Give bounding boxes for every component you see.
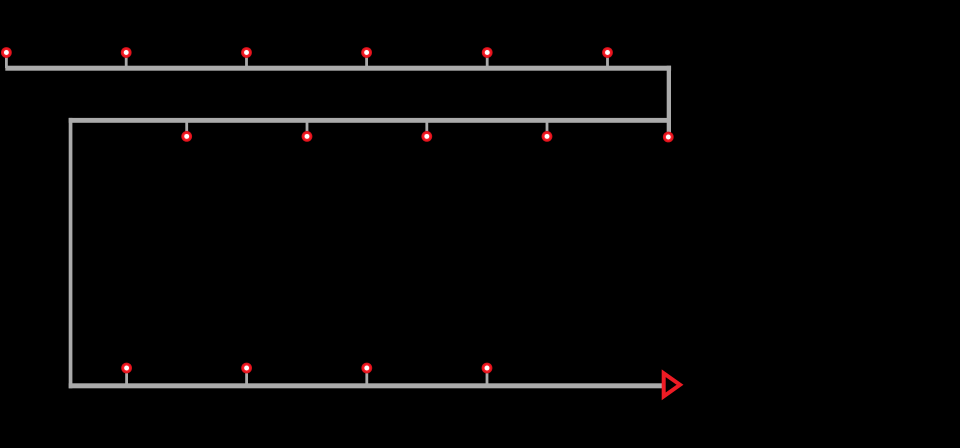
node M12 (row 3, milestone 12) xyxy=(121,363,132,386)
node M15 (row 3, milestone 15) xyxy=(482,363,493,386)
wire: row 2 horizontal timeline segment xyxy=(69,118,671,123)
node M3 (row 1, milestone 3) xyxy=(241,47,252,68)
node M4 (row 1, milestone 4) xyxy=(361,47,372,68)
wire: row 1 horizontal timeline segment xyxy=(5,66,671,71)
node M5 (row 1, milestone 5) xyxy=(482,47,493,68)
node M1 (row 1, milestone 1) xyxy=(1,47,12,68)
node M13 (row 3, milestone 13) xyxy=(241,363,252,386)
node M9 (row 2, milestone 9) xyxy=(421,120,432,142)
node M8 (row 2, milestone 8) xyxy=(302,120,313,142)
node M7 (row 2, milestone 7) xyxy=(181,120,192,142)
arrow head (end of timeline) xyxy=(664,373,680,396)
wire: right vertical connector xyxy=(667,66,671,134)
node M2 (row 1, milestone 2) xyxy=(121,47,132,68)
node M11 (row 2, milestone 11, on right connector) xyxy=(663,132,674,143)
node M14 (row 3, milestone 14) xyxy=(361,363,372,386)
node M6 (row 1, milestone 6) xyxy=(602,47,613,68)
wire: left vertical connector xyxy=(69,118,73,388)
node M10 (row 2, milestone 10) xyxy=(542,120,553,142)
wire: row 3 horizontal timeline segment xyxy=(69,383,664,388)
